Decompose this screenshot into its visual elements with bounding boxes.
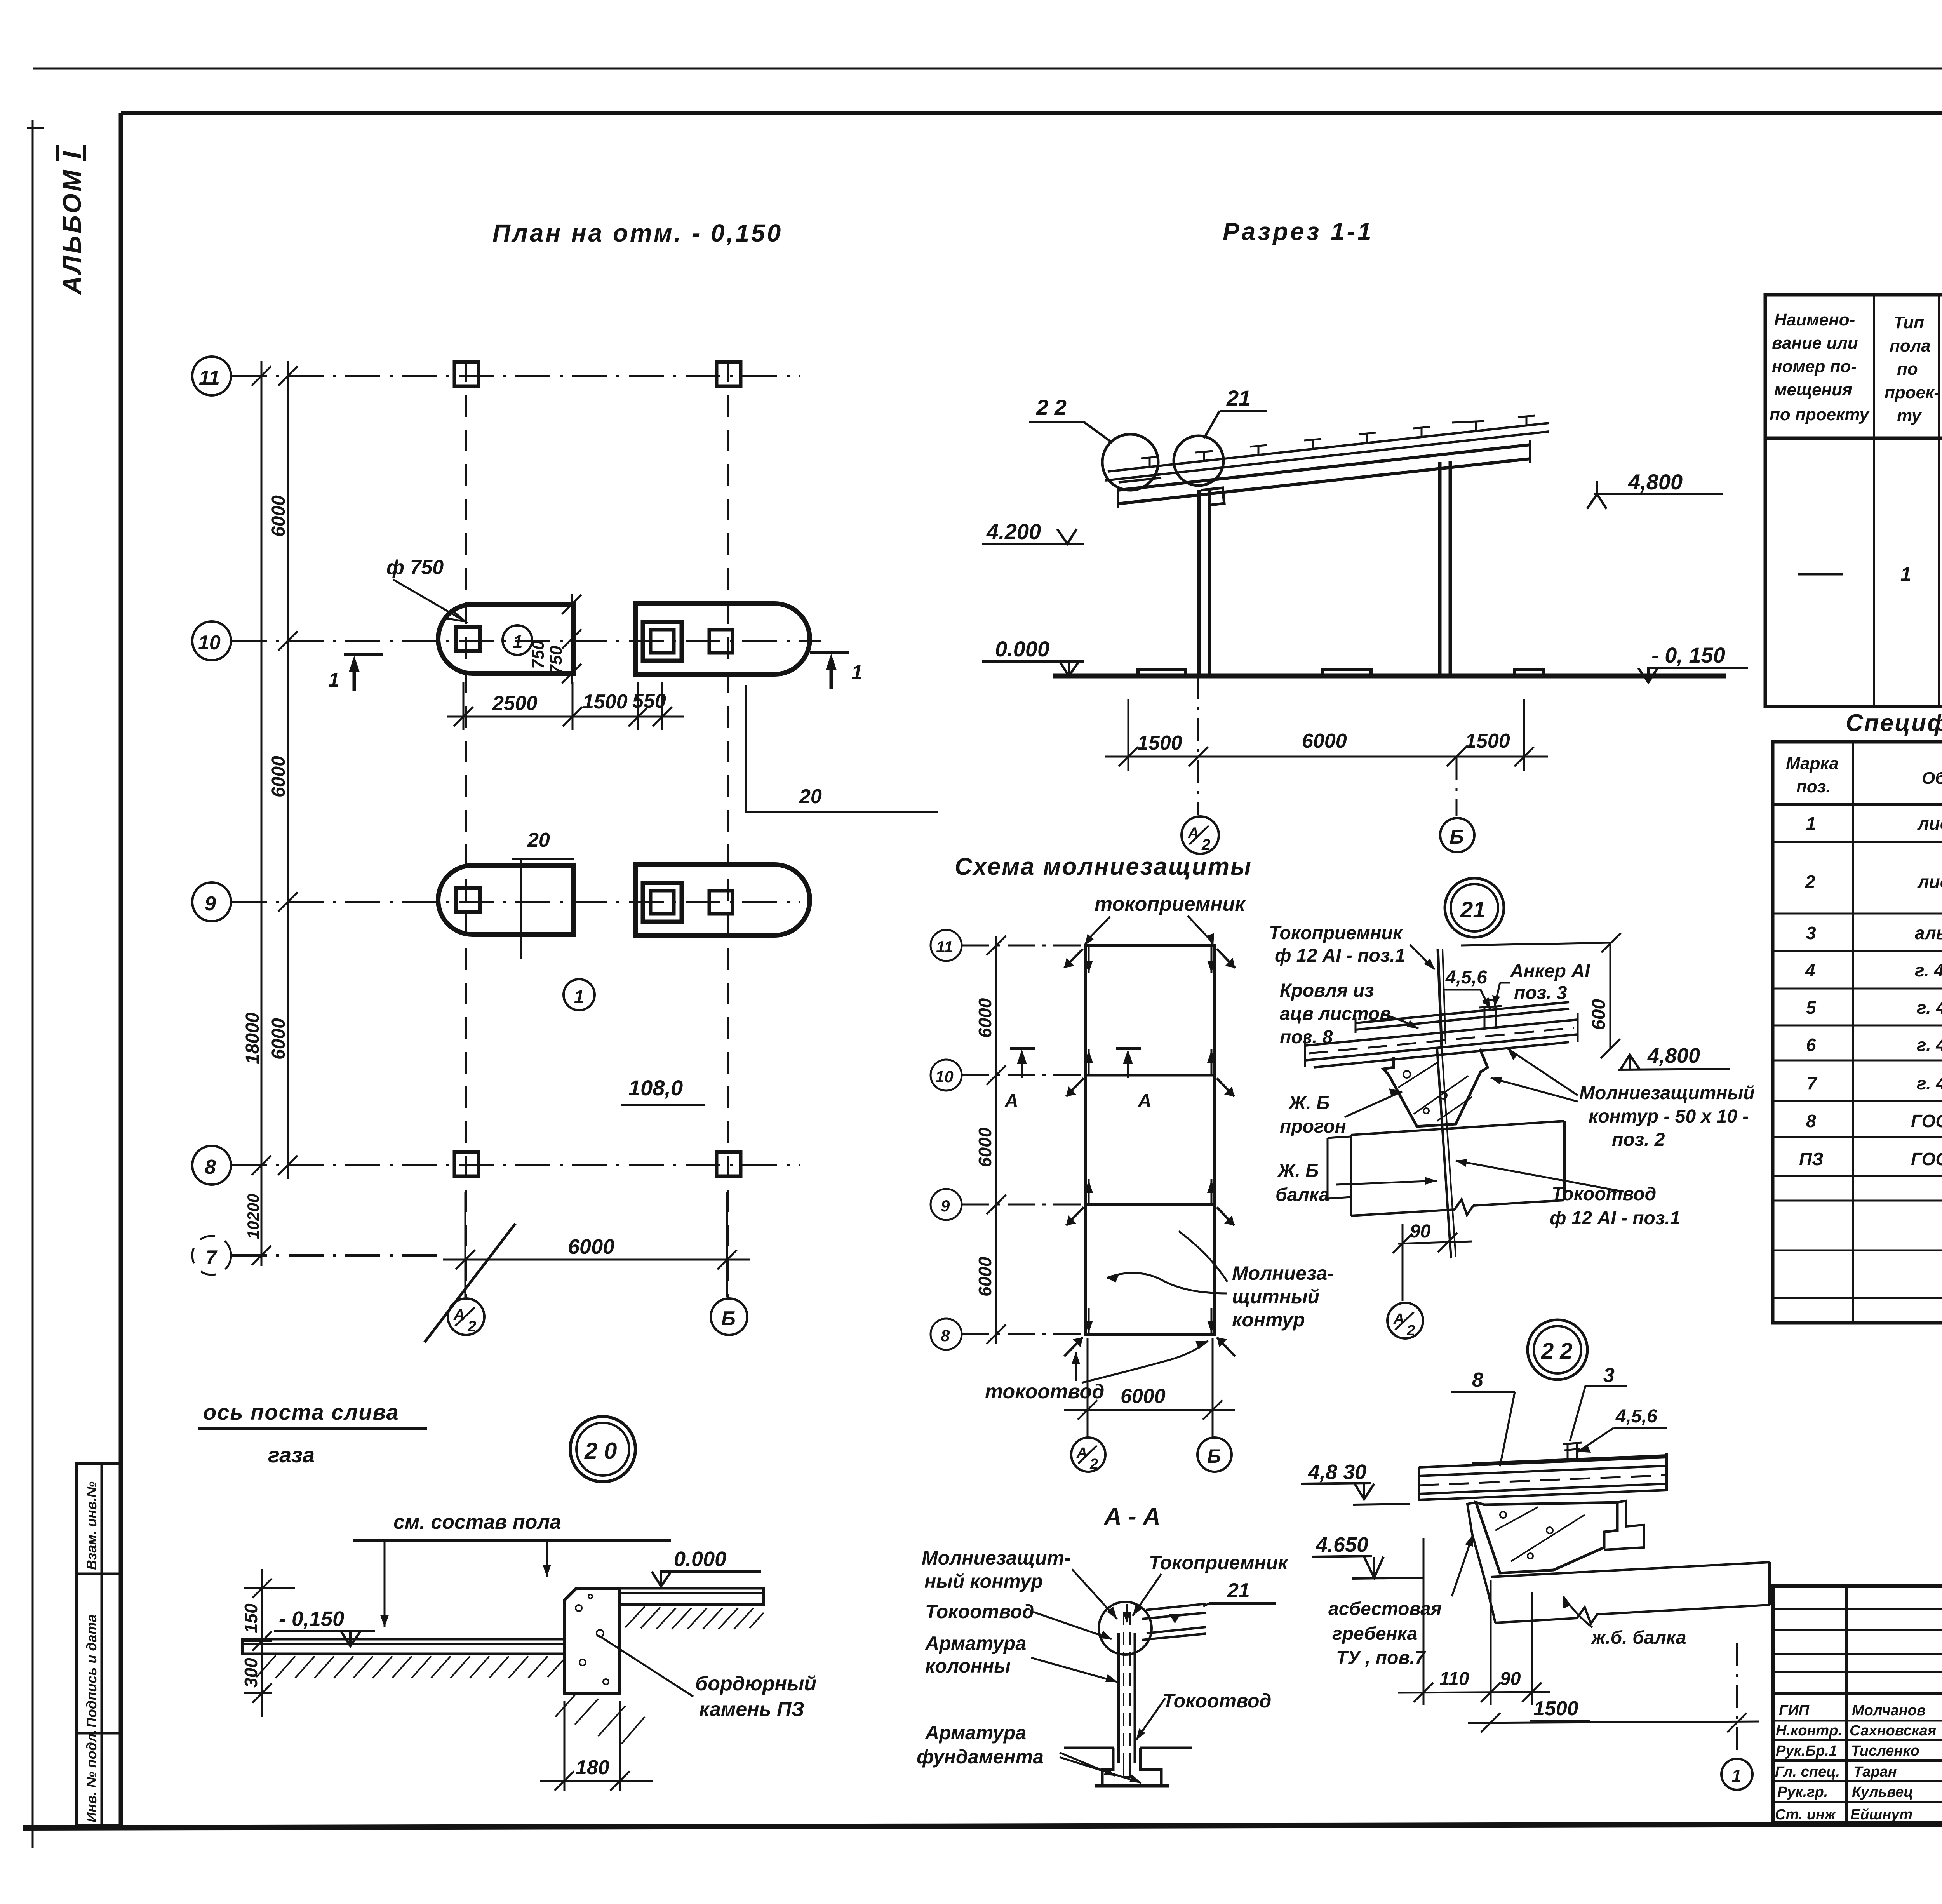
svg-text:Б: Б bbox=[1450, 826, 1464, 848]
section A mark left bbox=[1010, 1047, 1035, 1050]
d22 top sheet bbox=[1472, 1455, 1667, 1464]
svg-text:Токоотвод: Токоотвод bbox=[1162, 1690, 1271, 1712]
d21 beam trapezoid bbox=[1383, 1049, 1488, 1126]
axis drop lines bbox=[1197, 676, 1199, 815]
scheme bubble 8 bbox=[931, 1319, 962, 1350]
svg-text:Тип: Тип bbox=[1893, 313, 1924, 332]
svg-text:г. 460 - 18.1: г. 460 - 18.1 bbox=[1917, 1073, 1942, 1093]
footing grid9 left (stadium) bbox=[438, 865, 574, 935]
svg-text:10: 10 bbox=[935, 1067, 954, 1086]
svg-text:600: 600 bbox=[1589, 999, 1609, 1030]
axis label leader diagonal bbox=[425, 1224, 515, 1342]
scheme axis 8 bbox=[962, 1333, 1086, 1335]
section mark 1 right bbox=[810, 653, 849, 689]
d22 beam long bbox=[1491, 1562, 1770, 1624]
signature table columns bbox=[1846, 1586, 1942, 1823]
svg-text:6000: 6000 bbox=[975, 1127, 995, 1167]
A-A ground line bbox=[1064, 1747, 1114, 1749]
svg-text:Токоприемник: Токоприемник bbox=[1269, 923, 1403, 943]
svg-text:по: по bbox=[1897, 360, 1918, 379]
svg-text:прогон: прогон bbox=[1280, 1116, 1346, 1137]
svg-text:Инв. № подл.: Инв. № подл. bbox=[84, 1730, 99, 1822]
svg-text:А - А: А - А bbox=[1103, 1503, 1161, 1530]
scheme axis 11 bbox=[962, 945, 1086, 947]
bottom dim 6000 bbox=[443, 1192, 750, 1297]
svg-text:г. 460 - 18.1: г. 460 - 18.1 bbox=[1917, 997, 1942, 1018]
svg-text:750: 750 bbox=[529, 640, 548, 669]
svg-text:6000: 6000 bbox=[268, 1018, 289, 1060]
scheme bottom dim 6000 bbox=[1064, 1338, 1235, 1437]
d21 жб балка slab bbox=[1351, 1121, 1564, 1216]
section mark 1 left bbox=[344, 654, 383, 691]
svg-text:2 0: 2 0 bbox=[584, 1438, 617, 1464]
svg-text:90: 90 bbox=[1500, 1669, 1521, 1689]
svg-text:Гл. спец.: Гл. спец. bbox=[1775, 1764, 1840, 1780]
explication header texts bbox=[1770, 310, 1942, 425]
svg-text:Арматура: Арматура bbox=[924, 1632, 1026, 1654]
beam end ticks bbox=[1117, 486, 1119, 508]
svg-text:ГОСТ 6665 - 82*: ГОСТ 6665 - 82* bbox=[1911, 1149, 1942, 1169]
dim row 2500 1500 550 bbox=[447, 682, 684, 730]
A-A beam right bbox=[1142, 1604, 1206, 1640]
specification table frame bbox=[1773, 742, 1942, 1323]
svg-text:Ейшнут: Ейшнут bbox=[1850, 1807, 1912, 1823]
svg-text:- 0, 150: - 0, 150 bbox=[1651, 643, 1725, 667]
svg-text:камень ПЗ: камень ПЗ bbox=[699, 1698, 804, 1721]
svg-text:2: 2 bbox=[1406, 1323, 1415, 1339]
roof sheet top line bbox=[1108, 423, 1549, 472]
dimension line 6000 spans bbox=[278, 361, 298, 1179]
d22 dim 1500 bbox=[1468, 1643, 1759, 1756]
svg-text:1: 1 bbox=[328, 669, 339, 691]
svg-text:8: 8 bbox=[1806, 1111, 1816, 1131]
d22 clamp right bbox=[1604, 1501, 1644, 1550]
detail bubble 21 bbox=[1445, 878, 1504, 937]
floor explication table frame bbox=[1765, 295, 1942, 707]
footing grid10 left (stadium) bbox=[438, 604, 574, 674]
d22 dims 110 90 bbox=[1398, 1538, 1550, 1705]
svg-text:Ст. инж: Ст. инж bbox=[1775, 1807, 1836, 1823]
d22 beam section bbox=[1476, 1502, 1617, 1573]
svg-text:1: 1 bbox=[574, 987, 584, 1007]
leader to rod bbox=[1410, 945, 1435, 969]
footing grid10 right (stadium) bbox=[636, 604, 810, 674]
svg-text:20: 20 bbox=[799, 785, 822, 808]
svg-text:А: А bbox=[453, 1306, 465, 1323]
svg-text:ж.б. балка: ж.б. балка bbox=[1590, 1627, 1686, 1648]
svg-text:10: 10 bbox=[198, 632, 221, 654]
column in footing 10 right bbox=[709, 630, 733, 653]
svg-text:Н.контр.: Н.контр. bbox=[1776, 1723, 1842, 1739]
svg-text:5: 5 bbox=[1806, 997, 1817, 1018]
svg-text:г. 460 - 18.1: г. 460 - 18.1 bbox=[1915, 960, 1942, 980]
svg-text:бордюрный: бордюрный bbox=[695, 1673, 816, 1695]
svg-text:Ж. Б: Ж. Б bbox=[1288, 1093, 1329, 1114]
specification row lines bbox=[1773, 842, 1942, 1298]
svg-text:6000: 6000 bbox=[1121, 1385, 1166, 1408]
svg-text:колонны: колонны bbox=[925, 1655, 1011, 1677]
d20 right hatch bbox=[625, 1606, 764, 1629]
svg-text:4,800: 4,800 bbox=[1647, 1044, 1700, 1067]
A-A leaders bbox=[1072, 1569, 1117, 1619]
column axis Б dashed bbox=[727, 360, 729, 1299]
svg-text:Взам. инв.№: Взам. инв.№ bbox=[84, 1481, 99, 1570]
scheme bubble 9 bbox=[931, 1189, 962, 1220]
svg-text:6000: 6000 bbox=[975, 998, 995, 1038]
bubble Б section bbox=[1440, 818, 1474, 852]
svg-text:20: 20 bbox=[527, 829, 550, 851]
scheme bubble 10 bbox=[931, 1060, 962, 1091]
detail circle 21 on eave bbox=[1174, 436, 1223, 486]
svg-text:ф 12 АI - поз.1: ф 12 АI - поз.1 bbox=[1275, 945, 1405, 966]
wavy leaders to контур label bbox=[1107, 1273, 1227, 1293]
A-A detail circle bbox=[1099, 1602, 1152, 1655]
svg-text:6000: 6000 bbox=[268, 756, 289, 797]
detail circle 22 on eave bbox=[1102, 434, 1158, 490]
svg-text:ный контур: ный контур bbox=[924, 1570, 1043, 1592]
svg-text:гребенка: гребенка bbox=[1332, 1624, 1417, 1644]
svg-text:ту: ту bbox=[1897, 406, 1922, 425]
contour line grid9 bbox=[1086, 1203, 1214, 1206]
d21 bubble А/2 bbox=[1387, 1303, 1423, 1338]
conductor arrows top corners bbox=[1064, 949, 1235, 1356]
column axis А/2 dashed bbox=[465, 360, 467, 1299]
d20 hatch under kerb bbox=[555, 1695, 645, 1744]
eave piece left bbox=[1119, 478, 1161, 482]
column А/2 in section bbox=[1199, 490, 1209, 675]
svg-text:Рук.Бр.1: Рук.Бр.1 bbox=[1776, 1743, 1837, 1759]
svg-text:2500: 2500 bbox=[492, 692, 538, 715]
svg-text:Таран: Таран bbox=[1853, 1764, 1897, 1780]
svg-text:План на отм. - 0,150: План на отм. - 0,150 bbox=[492, 219, 783, 247]
svg-text:2 2: 2 2 bbox=[1036, 395, 1067, 419]
svg-text:А: А bbox=[1187, 825, 1199, 842]
column at 8/Б bbox=[717, 1152, 741, 1176]
A-A rod top bbox=[1126, 1604, 1128, 1622]
svg-text:108,0: 108,0 bbox=[628, 1076, 683, 1100]
signature table rows bbox=[1773, 1609, 1942, 1802]
svg-text:6000: 6000 bbox=[568, 1235, 614, 1258]
svg-text:21: 21 bbox=[1226, 386, 1251, 410]
svg-text:2 2: 2 2 bbox=[1541, 1338, 1573, 1364]
svg-text:4.650: 4.650 bbox=[1316, 1533, 1368, 1556]
d20 floor left slab bbox=[242, 1639, 564, 1654]
main title block frame bbox=[1773, 1586, 1942, 1823]
roof sheet second line bbox=[1105, 432, 1549, 480]
svg-text:6000: 6000 bbox=[268, 495, 289, 537]
roof beam bottom bbox=[1118, 459, 1530, 504]
grid axis 11 line bbox=[232, 375, 800, 377]
column in footing 10 left bbox=[456, 627, 480, 651]
svg-text:газа: газа bbox=[268, 1443, 315, 1467]
svg-text:Молниезащит-: Молниезащит- bbox=[922, 1547, 1071, 1569]
arrow to bottom-left corner bbox=[1075, 1352, 1077, 1381]
pylon double square 9 bbox=[643, 883, 682, 922]
svg-text:2: 2 bbox=[467, 1318, 476, 1335]
d20 dim 180 bbox=[540, 1701, 653, 1791]
leader ф750 bbox=[393, 580, 465, 621]
svg-text:щитный: щитный bbox=[1232, 1286, 1319, 1307]
column in footing 9 right bbox=[709, 891, 733, 914]
svg-text:- 0,150: - 0,150 bbox=[279, 1607, 344, 1631]
svg-text:2: 2 bbox=[1201, 836, 1210, 853]
svg-text:Б: Б bbox=[1207, 1445, 1221, 1467]
signature names bbox=[1775, 1702, 1936, 1823]
detail bubble 20 bbox=[570, 1417, 635, 1482]
svg-text:7: 7 bbox=[1807, 1073, 1818, 1093]
d20 floor right slab bbox=[620, 1588, 764, 1605]
scheme axis 9 bbox=[962, 1204, 1086, 1206]
wavy leader to bottom-right corner bbox=[1082, 1341, 1208, 1383]
contour line grid10 bbox=[1086, 1074, 1214, 1077]
d22 beam hatch bbox=[1495, 1507, 1585, 1561]
svg-text:4,5,6: 4,5,6 bbox=[1615, 1406, 1657, 1427]
svg-text:АЛЬБОМ I: АЛЬБОМ I bbox=[57, 150, 86, 295]
ground line bbox=[1053, 674, 1726, 679]
bubble А/2 section bbox=[1182, 816, 1219, 854]
svg-text:3: 3 bbox=[1603, 1364, 1615, 1387]
svg-text:Подпись и дата: Подпись и дата bbox=[84, 1614, 99, 1728]
svg-text:пола: пола bbox=[1890, 336, 1931, 355]
svg-text:ф 750: ф 750 bbox=[386, 556, 444, 579]
grid bubble 7 dashed bbox=[192, 1236, 231, 1275]
svg-text:ТУ , пов.7: ТУ , пов.7 bbox=[1336, 1648, 1426, 1668]
pylon double square bbox=[643, 622, 682, 661]
svg-text:асбестовая: асбестовая bbox=[1328, 1599, 1442, 1619]
explication data row bbox=[1798, 573, 1843, 576]
lightning contour rectangle bbox=[1086, 945, 1214, 1334]
svg-text:контур - 50 х 10 -: контур - 50 х 10 - bbox=[1589, 1106, 1749, 1127]
svg-text:Анкер АI: Анкер АI bbox=[1510, 961, 1590, 982]
svg-text:4,800: 4,800 bbox=[1628, 470, 1683, 494]
svg-text:вание или: вание или bbox=[1772, 334, 1858, 353]
svg-text:110: 110 bbox=[1439, 1669, 1469, 1689]
svg-text:Разрез 1-1: Разрез 1-1 bbox=[1223, 218, 1374, 245]
d22 clamp left bbox=[1467, 1502, 1488, 1590]
svg-text:3: 3 bbox=[1806, 923, 1816, 943]
svg-text:поз.: поз. bbox=[1796, 777, 1831, 796]
svg-text:6: 6 bbox=[1806, 1035, 1816, 1055]
svg-text:А: А bbox=[1138, 1091, 1152, 1111]
svg-text:9: 9 bbox=[941, 1197, 950, 1215]
svg-text:9: 9 bbox=[205, 893, 216, 915]
svg-text:Сахновская: Сахновская bbox=[1850, 1723, 1936, 1739]
svg-text:0.000: 0.000 bbox=[995, 637, 1049, 661]
svg-text:Ж. Б: Ж. Б bbox=[1277, 1161, 1319, 1181]
detail leader 20 right bbox=[746, 685, 938, 812]
svg-text:4,8 30: 4,8 30 bbox=[1308, 1460, 1366, 1484]
d21 600 dim bbox=[1610, 943, 1611, 1049]
svg-text:по проекту: по проекту bbox=[1770, 405, 1870, 424]
bubble А/2 bbox=[448, 1298, 484, 1335]
svg-text:1500: 1500 bbox=[1137, 732, 1182, 754]
svg-text:2: 2 bbox=[1805, 872, 1815, 892]
svg-text:4: 4 bbox=[1805, 960, 1815, 980]
d22 bolt bbox=[1563, 1443, 1582, 1460]
d22 roof band bbox=[1419, 1457, 1667, 1500]
svg-text:ГОСТ 16233 - 77*: ГОСТ 16233 - 77* bbox=[1911, 1111, 1942, 1131]
svg-text:Молниеза-: Молниеза- bbox=[1232, 1262, 1334, 1284]
room circle 1 bbox=[564, 979, 595, 1010]
column at 11/А2 bbox=[454, 362, 479, 386]
svg-text:180: 180 bbox=[576, 1756, 609, 1779]
svg-text:8: 8 bbox=[941, 1326, 950, 1345]
d21 roof band bbox=[1305, 1002, 1578, 1067]
svg-text:1500: 1500 bbox=[1533, 1697, 1578, 1720]
d20 left hatch bbox=[256, 1655, 563, 1678]
svg-text:18000: 18000 bbox=[242, 1012, 263, 1064]
section A mark right bbox=[1116, 1047, 1141, 1050]
svg-text:1: 1 bbox=[851, 661, 863, 684]
svg-text:номер по-: номер по- bbox=[1772, 357, 1857, 376]
grid axis 8 line bbox=[232, 1164, 800, 1166]
svg-text:альбом Ш: альбом Ш bbox=[1915, 923, 1942, 943]
svg-text:Токоприемник: Токоприемник bbox=[1149, 1552, 1289, 1573]
specification rows bbox=[1799, 812, 1942, 1171]
svg-text:0.000: 0.000 bbox=[674, 1547, 726, 1571]
left edge attachment strip bbox=[77, 1464, 121, 1826]
svg-text:750: 750 bbox=[546, 646, 566, 674]
svg-text:1: 1 bbox=[1806, 813, 1816, 834]
svg-text:7: 7 bbox=[206, 1246, 218, 1268]
svg-text:г. 460 - 18.1: г. 460 - 18.1 bbox=[1917, 1035, 1942, 1055]
svg-text:90: 90 bbox=[1410, 1221, 1431, 1242]
footing grid9 right (stadium) bbox=[636, 865, 810, 935]
scheme bubble Б bbox=[1197, 1438, 1232, 1472]
svg-text:Марка: Марка bbox=[1786, 754, 1839, 773]
svg-text:4,5,6: 4,5,6 bbox=[1445, 967, 1487, 988]
svg-text:21: 21 bbox=[1227, 1579, 1250, 1602]
roof clamps bbox=[1141, 416, 1535, 467]
svg-text:лист 12: лист 12 bbox=[1917, 872, 1942, 892]
svg-text:300: 300 bbox=[241, 1658, 261, 1688]
svg-text:балка: балка bbox=[1276, 1185, 1329, 1205]
svg-text:ф 12 АI - поз.1: ф 12 АI - поз.1 bbox=[1550, 1208, 1680, 1229]
svg-text:проек-: проек- bbox=[1885, 383, 1940, 402]
d21 beam hatch bbox=[1398, 1063, 1472, 1121]
d21 rod through slab bbox=[1443, 1142, 1451, 1258]
svg-text:Молчанов: Молчанов bbox=[1852, 1702, 1926, 1719]
svg-text:А: А bbox=[1004, 1091, 1018, 1111]
specification header bbox=[1786, 754, 1942, 796]
column at 8/А2 bbox=[454, 1152, 479, 1176]
svg-text:4.200: 4.200 bbox=[986, 519, 1041, 544]
column in footing 9 left bbox=[456, 888, 480, 912]
21 underline leader to beam bbox=[1203, 1603, 1209, 1606]
svg-text:ось поста слива: ось поста слива bbox=[203, 1400, 399, 1424]
A-A rebar hook bbox=[1124, 1756, 1130, 1777]
A-A footing pedestal bbox=[1095, 1748, 1169, 1786]
svg-text:фундамента: фундамента bbox=[917, 1746, 1044, 1768]
section dim line bbox=[1105, 699, 1548, 771]
svg-text:Арматура: Арматура bbox=[924, 1722, 1026, 1744]
scheme axis 10 bbox=[962, 1074, 1086, 1076]
svg-text:1500: 1500 bbox=[1465, 730, 1510, 752]
svg-text:Схема молниезащиты: Схема молниезащиты bbox=[955, 853, 1252, 880]
svg-text:1500: 1500 bbox=[583, 691, 628, 713]
column at 11/Б bbox=[717, 362, 741, 386]
svg-text:11: 11 bbox=[199, 367, 220, 389]
svg-text:8: 8 bbox=[1472, 1369, 1483, 1391]
dimension line 18000 bbox=[252, 361, 271, 1266]
grid bubble 11 bbox=[192, 357, 231, 395]
d20 kerb stone bbox=[564, 1588, 620, 1693]
detail bubble 22 bbox=[1528, 1320, 1587, 1380]
svg-text:Молниезащитный: Молниезащитный bbox=[1579, 1083, 1755, 1103]
svg-text:Кровля из: Кровля из bbox=[1280, 980, 1374, 1001]
bubble Б bbox=[711, 1298, 747, 1335]
curb steps on ground bbox=[1138, 670, 1544, 676]
svg-text:Спецификация элементов нав: Спецификация элементов навеса bbox=[1846, 710, 1942, 736]
svg-text:Токоотвод: Токоотвод bbox=[1552, 1184, 1656, 1204]
svg-text:Токоотвод: Токоотвод bbox=[925, 1601, 1034, 1622]
d20 vertical dims 150 300 bbox=[244, 1569, 295, 1717]
svg-text:21: 21 bbox=[1460, 897, 1486, 922]
svg-text:2: 2 bbox=[1089, 1456, 1098, 1472]
scheme bubble А/2 bbox=[1071, 1438, 1105, 1472]
roof beam top bbox=[1118, 445, 1530, 490]
grid bubble 8 bbox=[192, 1146, 231, 1185]
svg-text:ПЗ: ПЗ bbox=[1799, 1149, 1824, 1169]
svg-text:мещения: мещения bbox=[1774, 380, 1852, 399]
svg-text:10200: 10200 bbox=[244, 1194, 262, 1239]
svg-text:ГИП: ГИП bbox=[1779, 1702, 1810, 1719]
scheme dim column bbox=[987, 936, 1006, 1344]
svg-text:1: 1 bbox=[1731, 1766, 1742, 1786]
leaders to top corners bbox=[1085, 917, 1110, 945]
svg-text:Наимено-: Наимено- bbox=[1774, 310, 1855, 329]
grid axis 7 dashed line bbox=[232, 1254, 445, 1257]
svg-text:лист 12: лист 12 bbox=[1917, 813, 1942, 834]
position circle 1 in footing bbox=[503, 625, 532, 655]
d21 dim 90 bbox=[1393, 1224, 1472, 1301]
svg-text:6000: 6000 bbox=[1302, 730, 1347, 752]
grid axis 9 line bbox=[232, 901, 800, 903]
svg-text:Обозначение: Обозначение bbox=[1922, 769, 1942, 788]
grid bubble 9 bbox=[192, 882, 231, 921]
conductor tick arrows on verticals bbox=[1084, 947, 1216, 1333]
svg-text:токоприемник: токоприемник bbox=[1095, 893, 1246, 915]
d21 rod through beam bbox=[1437, 1049, 1443, 1142]
svg-text:Б: Б bbox=[721, 1307, 736, 1330]
svg-text:11: 11 bbox=[936, 938, 953, 956]
vertical label АЛЬБОМ I bbox=[57, 145, 86, 295]
svg-text:Рук.гр.: Рук.гр. bbox=[1777, 1784, 1828, 1800]
svg-text:поз. 3: поз. 3 bbox=[1514, 983, 1567, 1003]
column Б in section bbox=[1440, 461, 1450, 675]
grid axis 10 line bbox=[232, 640, 821, 642]
grid bubble 10 bbox=[192, 621, 231, 660]
svg-text:8: 8 bbox=[205, 1156, 216, 1178]
d21 rod vertical bbox=[1438, 949, 1442, 1049]
d21 anchor bolt bbox=[1479, 999, 1502, 1030]
scheme bubble 11 bbox=[931, 930, 962, 961]
svg-text:550: 550 bbox=[632, 690, 666, 712]
svg-text:поз. 2: поз. 2 bbox=[1612, 1130, 1665, 1150]
svg-text:контур: контур bbox=[1232, 1309, 1305, 1331]
svg-text:Тисленко: Тисленко bbox=[1851, 1743, 1919, 1759]
svg-text:см. состав пола: см. состав пола bbox=[393, 1511, 561, 1533]
svg-text:1: 1 bbox=[513, 632, 523, 652]
d21 top dim line bbox=[1461, 943, 1611, 945]
d20 kerb speckles bbox=[576, 1594, 609, 1685]
svg-text:А: А bbox=[1393, 1311, 1404, 1327]
svg-text:1: 1 bbox=[1900, 563, 1911, 585]
svg-text:150: 150 bbox=[241, 1603, 261, 1633]
svg-text:Кульвец: Кульвец bbox=[1852, 1784, 1913, 1800]
A-A column shaft bbox=[1119, 1633, 1135, 1763]
svg-text:токоотвод: токоотвод bbox=[985, 1380, 1104, 1403]
